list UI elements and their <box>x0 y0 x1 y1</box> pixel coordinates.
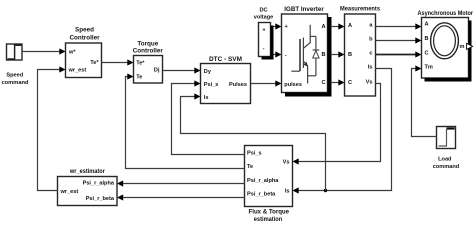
block: Speed Controller <box>66 27 102 78</box>
svg-text:A: A <box>425 22 429 28</box>
wire: DTC-SVM Pulses to IGBT pulses <box>251 80 282 86</box>
block: Torque Controller <box>133 40 164 83</box>
wire: estimation Psi_s to DTC-SVM Psi_s <box>172 80 245 154</box>
svg-text:Is: Is <box>204 95 209 101</box>
wire: Load command to Motor Tm <box>412 65 437 136</box>
svg-text:m: m <box>460 44 465 50</box>
wire: Measurements b to Motor B <box>376 37 422 43</box>
wire: Measurements c to Motor C (thicker) <box>376 51 422 57</box>
svg-text:B: B <box>425 36 429 42</box>
svg-text:estimation: estimation <box>254 216 283 223</box>
svg-text:command: command <box>433 164 460 170</box>
svg-text:c: c <box>369 51 372 57</box>
svg-text:Pulses: Pulses <box>229 82 247 88</box>
svg-text:Flux & Torque: Flux & Torque <box>249 209 290 216</box>
step source: Speed command <box>2 44 30 86</box>
block: Asynchronous Motor (with shadow) <box>418 10 474 82</box>
svg-text:Psi_s: Psi_s <box>204 82 219 88</box>
wire: IGBT A to Measurements A <box>331 23 345 29</box>
svg-text:-: - <box>285 52 287 58</box>
wire: Speed Controller Te* to Torque Controller Te* <box>102 59 134 65</box>
wire: Measurements a to Motor A <box>376 23 422 29</box>
svg-text:Psi_r_beta: Psi_r_beta <box>247 192 276 198</box>
svg-text:pulses: pulses <box>284 82 302 88</box>
svg-text:Te: Te <box>247 164 253 170</box>
svg-text:Is: Is <box>368 65 373 71</box>
svg-text:C: C <box>425 50 429 56</box>
junction dot on Is line <box>324 189 327 192</box>
svg-text:Te*: Te* <box>136 60 145 66</box>
svg-text:IGBT Inverter: IGBT Inverter <box>284 6 324 13</box>
svg-text:Tm: Tm <box>425 65 433 71</box>
svg-text:Load: Load <box>438 157 452 163</box>
wire: Measurements Is down and to estimation Is (with branch to DTC Is) <box>181 69 392 194</box>
svg-text:Controller: Controller <box>69 35 100 42</box>
step source: Load command <box>433 127 460 170</box>
svg-text:Measurements: Measurements <box>340 6 380 13</box>
block: Measurements <box>340 6 380 96</box>
block: DC voltage source (with shadow) <box>254 7 274 59</box>
svg-text:Torque: Torque <box>137 40 158 47</box>
svg-text:Psi_r_alpha: Psi_r_alpha <box>83 181 115 187</box>
svg-text:Psi_r_beta: Psi_r_beta <box>86 196 115 202</box>
svg-text:Speed: Speed <box>6 72 23 78</box>
wire: Torque Controller Dj to DTC-SVM Dy <box>163 67 201 73</box>
branch wire: Is to DTC-SVM Is input <box>181 97 326 191</box>
block: wr_estimator <box>58 168 118 205</box>
svg-text:Vs: Vs <box>366 79 373 85</box>
svg-text:wr_est: wr_est <box>60 189 79 195</box>
svg-text:wr_est: wr_est <box>68 68 87 74</box>
wire: Measurements Vs down to estimation Vs <box>293 84 381 165</box>
svg-text:Dj: Dj <box>154 67 160 73</box>
block: Flux & Torque estimation <box>245 146 293 224</box>
wire: estimation Psi_r_beta to wr_estimator <box>117 194 245 200</box>
svg-text:C: C <box>348 80 352 86</box>
wire: IGBT C to Measurements C <box>331 79 345 85</box>
svg-text:B: B <box>348 52 352 58</box>
svg-text:Psi_s: Psi_s <box>247 150 262 156</box>
wire: estimation Te to Torque Controller Te <box>126 73 245 168</box>
icon: IGBT transistor and diode inside inverter <box>291 25 319 84</box>
wire: estimation Psi_r_alpha to wr_estimator <box>117 180 245 186</box>
svg-text:A: A <box>321 24 325 30</box>
svg-text:Dy: Dy <box>204 69 212 75</box>
block: IGBT Inverter (with shadow) <box>282 6 332 96</box>
svg-text:Asynchronous Motor: Asynchronous Motor <box>418 10 474 17</box>
svg-text:b: b <box>369 36 373 42</box>
wire: Speed command to Speed Controller w* <box>22 48 66 54</box>
svg-text:command: command <box>2 80 30 86</box>
port: motor m output (unconnected hollow arrow) <box>467 43 473 49</box>
svg-text:Psi_r_alpha: Psi_r_alpha <box>247 178 279 184</box>
wire: wr_estimator output to Speed Controller wr_est <box>38 66 66 190</box>
svg-text:-: - <box>263 46 265 52</box>
wire: IGBT B to Measurements B <box>331 51 345 57</box>
svg-text:Controller: Controller <box>133 48 164 55</box>
svg-text:Vs: Vs <box>283 159 290 165</box>
icon: motor rings <box>431 23 459 59</box>
svg-text:Speed: Speed <box>75 27 94 34</box>
svg-text:wr_estimator: wr_estimator <box>69 168 105 175</box>
svg-text:DC: DC <box>259 7 267 13</box>
svg-text:C: C <box>321 80 325 86</box>
svg-text:A: A <box>348 23 352 29</box>
svg-text:voltage: voltage <box>254 15 274 21</box>
svg-text:Is: Is <box>285 188 290 194</box>
svg-text:Te: Te <box>136 74 142 80</box>
svg-text:DTC - SVM: DTC - SVM <box>209 56 242 63</box>
svg-text:w*: w* <box>68 50 76 56</box>
svg-text:B: B <box>321 52 325 58</box>
wire: DC- to IGBT - <box>274 51 282 57</box>
svg-text:Te*: Te* <box>90 60 99 66</box>
wire: DC+ to IGBT + <box>274 23 282 29</box>
block: DTC - SVM <box>201 56 251 104</box>
